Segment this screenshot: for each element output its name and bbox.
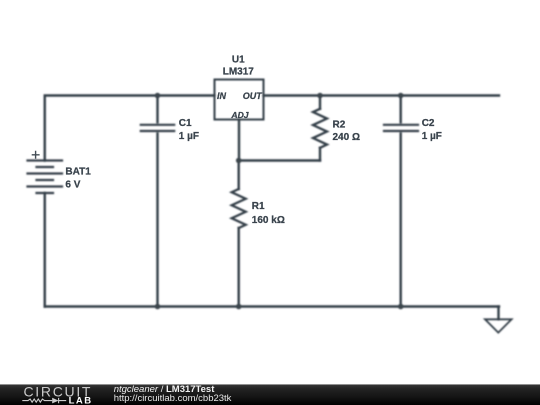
svg-text:1 µF: 1 µF [422,131,442,142]
svg-text:LM317: LM317 [223,67,255,78]
capacitor C2 [384,96,418,307]
svg-text:C1: C1 [179,118,192,129]
svg-text:R2: R2 [333,119,346,130]
svg-text:U1: U1 [232,55,245,66]
wire bottom ground rail [45,305,499,307]
svg-text:IN: IN [217,91,227,101]
battery BAT1 plus sign [32,151,40,159]
capacitor C1 [141,96,174,307]
wire U1 ADJ pin down to adj node [238,120,240,161]
svg-text:160 kΩ: 160 kΩ [252,215,285,226]
svg-text:6 V: 6 V [65,180,80,191]
junction R1 bottom [236,304,242,310]
junction C2 top [398,93,404,99]
logo resistor-diode symbol [22,398,66,403]
junction R2 top [317,93,323,99]
wire battery negative down to bottom rail [44,193,46,307]
svg-text:ADJ: ADJ [230,110,248,120]
voltage regulator U1 LM317 box [215,80,264,120]
svg-text:R1: R1 [252,201,265,212]
junction ADJ node [236,158,242,164]
svg-text:1 µF: 1 µF [179,131,199,142]
svg-text:OUT: OUT [243,91,264,101]
wire ground stub down from bottom rail [497,307,499,320]
junction C1 bottom [155,304,161,310]
wire U1 OUT pin to output node (top right) [264,94,500,96]
ground symbol [485,319,512,332]
svg-text:BAT1: BAT1 [65,167,91,178]
wire battery positive up and across to U1 IN pin [45,96,215,161]
svg-text:LAB: LAB [69,395,93,405]
resistor R1 [232,161,246,307]
svg-text:240 Ω: 240 Ω [333,132,360,143]
junction C2 bottom [398,304,404,310]
battery BAT1 [28,161,63,194]
svg-text:http://circuitlab.com/cbb23tk: http://circuitlab.com/cbb23tk [114,393,232,404]
junction C1 top [155,93,161,99]
svg-text:C2: C2 [422,118,435,129]
wire adj node across to R2 bottom [239,159,320,161]
resistor R2 [313,96,327,161]
